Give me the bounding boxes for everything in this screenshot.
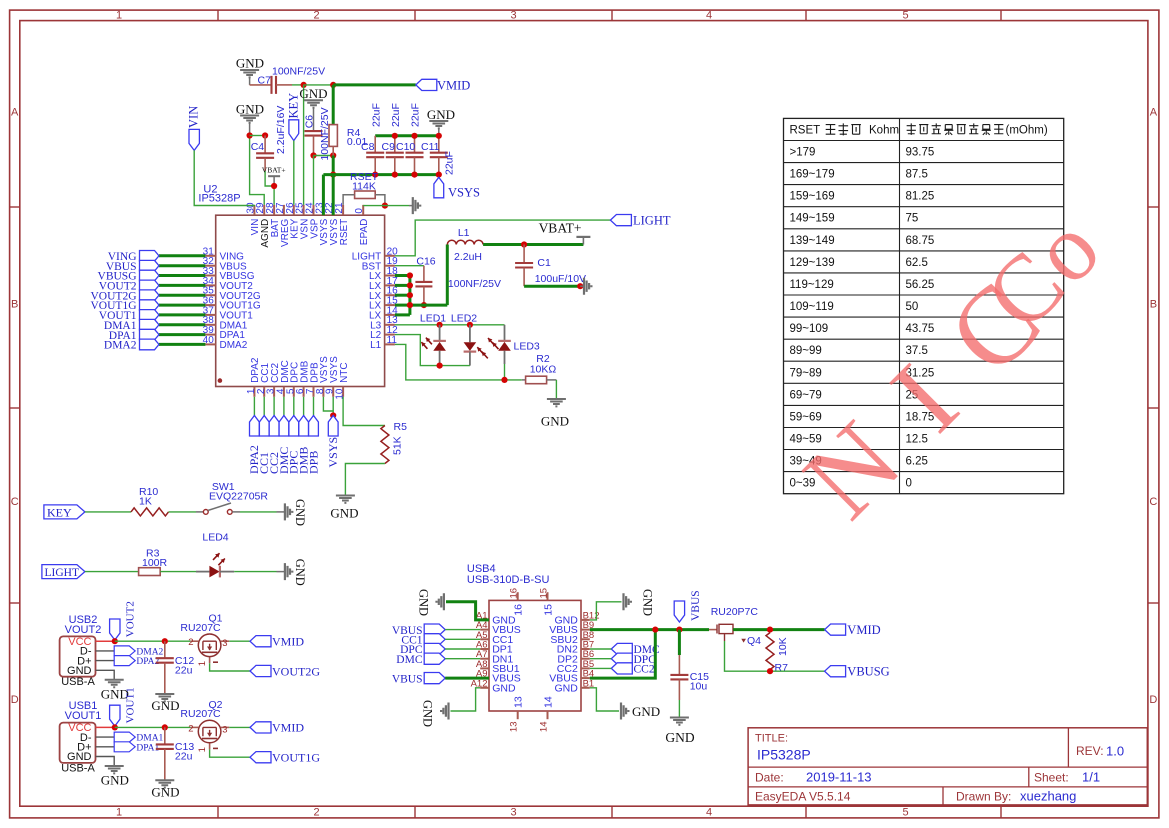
wire VOUT1 to Q2 — [115, 726, 191, 728]
wire Q4 gate to VBUSG — [725, 641, 825, 671]
svg-text:2: 2 — [313, 10, 319, 22]
net flag DPC usb4-right — [611, 653, 656, 666]
wire VCC VOUT2 — [96, 640, 115, 642]
wire B1 to GND — [590, 688, 619, 711]
svg-text:DMA2: DMA2 — [220, 340, 248, 351]
svg-text:C16: C16 — [416, 255, 435, 267]
svg-text:KEY: KEY — [47, 505, 72, 519]
svg-text:Kohm: Kohm — [869, 124, 899, 136]
capacitor C1 — [515, 245, 586, 287]
svg-text:C7: C7 — [258, 75, 272, 87]
junction C1 top — [521, 241, 527, 247]
ground EPAD arrow — [409, 197, 420, 214]
junction A1 — [247, 132, 253, 138]
svg-text:1K: 1K — [139, 496, 152, 508]
ground C12 — [151, 694, 179, 713]
svg-text:2: 2 — [313, 807, 319, 819]
junctions LED top — [437, 322, 474, 328]
wire SW1 to GND — [232, 511, 276, 513]
svg-text:1: 1 — [116, 807, 122, 819]
resistor R7 10K — [766, 633, 789, 674]
wire D- flag — [96, 736, 115, 738]
svg-text:Date:: Date: — [755, 771, 784, 785]
wire VOUT2 to Q1 — [115, 640, 191, 642]
svg-text:89~99: 89~99 — [790, 345, 822, 357]
svg-text:GND: GND — [101, 773, 129, 788]
svg-text:GND: GND — [665, 730, 694, 745]
wire VBUS to C15 — [678, 630, 681, 655]
svg-text:1: 1 — [116, 10, 122, 22]
net flag DPA1 — [114, 742, 159, 754]
svg-text:GND: GND — [299, 86, 327, 101]
wire KEY to pin26 — [293, 141, 295, 205]
svg-text:xuezhang: xuezhang — [1020, 789, 1076, 804]
junction VSYS rail-pin22 — [330, 172, 336, 178]
wire DPC to pin — [445, 648, 480, 650]
net flag LIGHT right — [610, 213, 670, 227]
net flag VSYS top — [434, 177, 480, 199]
wire C6 to R4 bottom — [314, 155, 334, 157]
led LED3 — [488, 325, 540, 364]
svg-text:VOUT1: VOUT1 — [125, 687, 137, 723]
led LED1 — [420, 312, 446, 365]
svg-text:KEY: KEY — [286, 93, 300, 119]
net flag DMA2 — [114, 646, 163, 658]
svg-text:VSYS: VSYS — [326, 437, 340, 468]
wire LIGHT to R3 — [85, 571, 139, 573]
junction VSP-C6 — [310, 152, 316, 158]
svg-text:VMID: VMID — [847, 623, 880, 637]
svg-text:GND: GND — [67, 665, 92, 677]
resistor R2 10K — [522, 353, 557, 384]
wire C7 to VSN node — [292, 84, 304, 86]
junctions LX bus — [407, 272, 413, 308]
svg-text:VIN: VIN — [187, 106, 201, 128]
junction VOUT1 flag — [112, 724, 118, 730]
junction LED3-R2 — [501, 377, 507, 383]
wire R4 to VSYS rail — [332, 156, 335, 175]
svg-text:D: D — [11, 694, 19, 706]
svg-text:C: C — [1149, 496, 1157, 508]
svg-text:10: 10 — [335, 388, 346, 400]
svg-text:159~169: 159~169 — [790, 191, 835, 203]
left net flags VING..DMA2 with wires — [91, 251, 206, 352]
svg-text:22uF: 22uF — [390, 103, 402, 127]
ground LIGHT arrow — [277, 559, 308, 586]
wire VSN sense — [303, 85, 305, 205]
wire DMC right — [590, 648, 612, 650]
svg-text:GND: GND — [293, 499, 307, 526]
net flag KEY left — [44, 505, 85, 519]
ground for AGND — [236, 102, 264, 136]
wire B12 to GND — [590, 602, 622, 620]
ground R2 — [541, 399, 569, 428]
wire B4 VBUS up — [590, 630, 656, 679]
wire Q2 gate to VOUT1G — [210, 749, 250, 757]
svg-text:GND: GND — [417, 589, 431, 616]
table RSET resistance vs battery internal resistance — [784, 118, 1064, 493]
wire C1 to GND — [524, 285, 580, 288]
wire VMID rail thick — [333, 83, 416, 86]
ground USB4 bottom-right — [621, 703, 660, 720]
net flag VBUS top — [674, 590, 702, 622]
svg-text:4: 4 — [706, 10, 712, 22]
svg-text:139~149: 139~149 — [790, 235, 835, 247]
svg-text:114K: 114K — [352, 180, 376, 192]
svg-text:VOUT2: VOUT2 — [65, 624, 102, 636]
svg-text:USB4: USB4 — [467, 563, 496, 575]
svg-text:2: 2 — [188, 723, 193, 734]
capacitor C16 — [415, 255, 501, 305]
svg-text:Q4: Q4 — [747, 635, 761, 647]
junction A2 — [262, 132, 268, 138]
net flag DMC usb4-left — [396, 653, 445, 666]
svg-text:100R: 100R — [142, 557, 168, 569]
net flag VMID right — [825, 623, 881, 637]
net flag VBUSG — [825, 665, 890, 679]
wire pin8 VSYS jog — [323, 397, 333, 411]
junction VBUS-B4 — [652, 627, 658, 633]
usb connector USB1 — [60, 700, 102, 774]
capacitor C7 — [250, 66, 326, 94]
wire VBUS to pin — [445, 629, 480, 631]
wire C4 to BAT — [265, 171, 274, 205]
net flag DPC usb4-left — [400, 643, 445, 656]
net flag VOUT1G — [250, 751, 320, 765]
junction R4 bottom — [330, 152, 336, 158]
wire C15 to GND — [678, 700, 680, 718]
svg-text:VBAT+: VBAT+ — [262, 166, 286, 175]
svg-text:DMA1: DMA1 — [136, 734, 163, 744]
svg-text:VOUT1G: VOUT1G — [272, 751, 320, 765]
junction C1 gnd — [577, 283, 583, 289]
op-amp U2 IP5328P body — [216, 215, 385, 386]
wire B9 VBUS rail — [590, 628, 709, 631]
net flag KEY top — [286, 93, 300, 141]
svg-text:C11: C11 — [421, 141, 440, 153]
wire L1 to VBAT+ — [483, 243, 583, 246]
svg-text:2019-11-13: 2019-11-13 — [806, 770, 872, 785]
transistor Q4 RU20P7C — [709, 606, 761, 647]
svg-text:DMA2: DMA2 — [136, 647, 163, 657]
svg-text:L1: L1 — [370, 340, 382, 351]
svg-text:2: 2 — [188, 637, 193, 648]
ground USB4 top-left — [417, 589, 444, 616]
svg-text:75: 75 — [906, 213, 919, 225]
svg-text:93.75: 93.75 — [906, 147, 935, 159]
wire cap bank top rail — [375, 134, 439, 137]
svg-text:GND: GND — [293, 559, 307, 586]
wire RSET left to pin21 — [343, 195, 355, 205]
junctions VSYS rail — [372, 172, 442, 178]
svg-text:USB-A: USB-A — [61, 762, 95, 774]
junction R7 top — [767, 627, 773, 633]
net flag VOUT2 — [110, 601, 137, 640]
wire DMC to pin — [445, 658, 480, 660]
labels C8..C11 — [361, 103, 455, 175]
svg-text:0: 0 — [354, 208, 365, 214]
junction EPAD — [382, 203, 388, 209]
ground C15 — [665, 718, 694, 746]
ground USB4 bottom-left — [421, 700, 449, 727]
svg-text:LED2: LED2 — [451, 312, 477, 324]
svg-text:GND: GND — [421, 700, 435, 727]
svg-text:R7: R7 — [775, 662, 789, 674]
svg-text:GND: GND — [632, 704, 660, 719]
label U2 refdes — [198, 184, 240, 205]
net flag VIN — [187, 106, 201, 151]
svg-text:GND: GND — [236, 102, 264, 117]
svg-text:16: 16 — [513, 604, 525, 616]
svg-text:1.0: 1.0 — [1106, 744, 1124, 759]
transistor Q1 RU207C — [180, 613, 229, 667]
junction VSYS flag — [330, 412, 336, 418]
svg-text:87.5: 87.5 — [906, 169, 928, 181]
wire VMID mid — [304, 84, 334, 86]
net flag CC1 usb4-left — [401, 634, 445, 647]
wire Q1 to VMID — [229, 640, 250, 642]
wire D+ flag — [96, 746, 115, 748]
wire R10 to SW1 — [169, 511, 204, 513]
svg-text:VOUT1: VOUT1 — [65, 710, 102, 722]
bottom net flags DPA2..DPB — [247, 397, 320, 474]
svg-text:51K: 51K — [392, 436, 404, 455]
svg-text:5: 5 — [902, 10, 908, 22]
wire Q4 to VMID — [733, 628, 825, 631]
net flag VBUS usb4-left — [392, 624, 445, 637]
svg-text:VMID: VMID — [272, 721, 304, 735]
svg-text:1: 1 — [197, 661, 208, 666]
svg-text:USB-A: USB-A — [61, 676, 95, 688]
wire R5 to GND — [345, 464, 385, 496]
junction VOUT2 flag — [112, 638, 118, 644]
wire L2 to LED bottoms — [395, 335, 470, 366]
junction LED1 bottom — [437, 363, 443, 369]
wire D+ flag — [96, 660, 115, 662]
svg-text:C6: C6 — [304, 115, 316, 129]
net flag DMA1 — [114, 732, 163, 744]
led LED4 — [202, 531, 234, 577]
svg-text:REV:: REV: — [1076, 744, 1104, 758]
svg-text:C1: C1 — [537, 257, 551, 269]
svg-text:(mOhm): (mOhm) — [1006, 124, 1048, 136]
svg-text:62.5: 62.5 — [906, 257, 928, 269]
svg-text:22uF: 22uF — [410, 103, 422, 127]
svg-text:B: B — [1150, 299, 1157, 311]
svg-text:GND: GND — [541, 413, 569, 428]
svg-text:3: 3 — [222, 638, 227, 649]
svg-text:Drawn By:: Drawn By: — [956, 790, 1011, 804]
resistor R3 100R — [139, 547, 168, 575]
svg-text:TITLE:: TITLE: — [755, 733, 788, 745]
svg-text:100NF/25V: 100NF/25V — [272, 66, 325, 78]
wire NTC to R5 — [343, 397, 385, 426]
svg-text:LED3: LED3 — [514, 341, 540, 353]
ground USB2 — [101, 680, 129, 702]
svg-text:C10: C10 — [396, 141, 415, 153]
wire R2 to GND — [555, 380, 557, 399]
switch SW1 EVQ22705R — [203, 481, 268, 514]
svg-text:RU20P7C: RU20P7C — [711, 606, 759, 618]
wire pin9 VSYS — [332, 397, 334, 416]
net flag VSYS bottom — [326, 416, 340, 468]
wire BST to C16 — [395, 265, 424, 267]
svg-text:14: 14 — [539, 722, 550, 733]
junction C12 top — [162, 638, 168, 644]
resistor R4 — [329, 125, 367, 156]
ground C1 arrow — [580, 278, 591, 295]
svg-text:C8: C8 — [361, 141, 375, 153]
svg-text:L1: L1 — [458, 227, 470, 239]
svg-text:IP5328P: IP5328P — [757, 747, 811, 763]
watermark — [781, 194, 1121, 541]
wire D- flag — [96, 650, 115, 652]
svg-text:10K: 10K — [777, 637, 789, 656]
svg-text:A: A — [1150, 107, 1158, 119]
wire CC1 to pin — [445, 638, 480, 640]
svg-text:22uF: 22uF — [443, 151, 455, 175]
svg-text:DPB: DPB — [306, 451, 320, 474]
svg-text:15: 15 — [539, 588, 550, 599]
wire R3 to LED4 — [160, 571, 209, 573]
ground for C6 — [299, 86, 327, 131]
svg-text:68.75: 68.75 — [906, 235, 935, 247]
wire Q1 gate to VOUT2G — [210, 663, 250, 671]
wire EPAD to GND — [363, 205, 409, 207]
wire A1 to GND — [446, 602, 489, 620]
svg-text:VSYS: VSYS — [448, 186, 480, 200]
ground for C7 — [236, 56, 264, 85]
net flag VOUT1 — [110, 687, 137, 726]
wire KEY to R10 — [85, 511, 131, 513]
svg-text:VOUT2G: VOUT2G — [272, 664, 320, 678]
svg-text:RSET: RSET — [790, 124, 821, 136]
capacitor C11 — [430, 136, 448, 175]
junction A3 — [271, 183, 277, 189]
net flag VMID top — [416, 78, 471, 92]
svg-text:LED1: LED1 — [420, 312, 446, 324]
junction VBUS flag — [676, 627, 682, 633]
wire USB2 GND — [96, 670, 115, 680]
svg-text:A: A — [11, 107, 19, 119]
junction VMID-VSN — [301, 82, 307, 88]
wire USB1 GND — [96, 757, 115, 767]
wire Q2 to VMID — [229, 726, 250, 728]
svg-text:C9: C9 — [382, 141, 396, 153]
wire LX bus — [395, 245, 447, 315]
svg-text:22u: 22u — [175, 751, 193, 763]
capacitor C10 — [406, 136, 424, 175]
ground C13 — [151, 780, 179, 799]
svg-text:B: B — [11, 299, 18, 311]
wire LED top rail — [395, 324, 505, 326]
wire AGND — [250, 136, 265, 205]
transistor Q2 RU207C — [180, 699, 229, 753]
svg-text:3: 3 — [510, 807, 516, 819]
usb connector USB4 USB-310D-B-SU — [467, 563, 600, 732]
svg-text:GND: GND — [151, 784, 179, 799]
svg-text:RU207C: RU207C — [180, 708, 221, 720]
svg-text:129~139: 129~139 — [790, 257, 835, 269]
svg-text:3: 3 — [510, 10, 516, 22]
svg-text:LIGHT: LIGHT — [45, 567, 80, 579]
svg-text:VBUSG: VBUSG — [847, 665, 889, 679]
svg-text:16: 16 — [509, 588, 520, 599]
svg-text:VBUS: VBUS — [392, 673, 423, 685]
svg-text:22u: 22u — [175, 665, 193, 677]
wire VBUS A9 thick — [445, 677, 489, 680]
svg-text:GND: GND — [236, 56, 264, 71]
wire GND to C4 — [250, 135, 266, 137]
wire VCC VOUT1 — [96, 726, 115, 728]
junction C13 top — [162, 724, 168, 730]
wire A12 to GND — [451, 688, 481, 711]
svg-text:IP5328P: IP5328P — [198, 193, 240, 205]
capacitor C12 — [156, 641, 195, 694]
resistor RSET 114K — [350, 171, 379, 198]
svg-text:Sheet:: Sheet: — [1034, 771, 1069, 785]
svg-text:GND: GND — [641, 589, 655, 616]
svg-text:RSET: RSET — [339, 219, 350, 246]
svg-text:DMC: DMC — [396, 654, 423, 666]
svg-text:EPAD: EPAD — [359, 219, 370, 246]
svg-text:99~109: 99~109 — [790, 323, 829, 335]
resistor R10 1K — [131, 486, 168, 516]
capacitor C9 — [386, 136, 404, 175]
wire VSYS bottom rail — [323, 173, 438, 176]
wire LIGHT — [395, 220, 611, 256]
svg-text:C: C — [11, 496, 19, 508]
svg-text:RU207C: RU207C — [180, 622, 221, 634]
svg-text:79~89: 79~89 — [790, 367, 822, 379]
svg-text:3: 3 — [222, 724, 227, 735]
power symbol VBAT+ small — [262, 166, 286, 186]
net flag CC2 usb4-right — [611, 663, 655, 676]
svg-text:CC2: CC2 — [634, 664, 655, 676]
svg-text:13: 13 — [513, 696, 525, 708]
svg-text:2.2uH: 2.2uH — [454, 251, 482, 263]
wire LED3 down — [504, 364, 506, 380]
wire L1pin to R2 rail — [395, 344, 522, 380]
svg-text:GND: GND — [151, 698, 179, 713]
svg-text:LIGHT: LIGHT — [633, 213, 671, 227]
ground for cap bank — [427, 107, 455, 136]
capacitor C6 — [304, 107, 331, 160]
svg-text:VOUT2: VOUT2 — [125, 601, 137, 637]
svg-text:GND: GND — [427, 107, 455, 122]
svg-text:EVQ22705R: EVQ22705R — [209, 491, 268, 503]
wire DPC right — [590, 658, 612, 660]
usb connector USB2 — [60, 614, 102, 688]
title block — [748, 728, 1147, 805]
svg-text:10KΩ: 10KΩ — [530, 363, 557, 375]
svg-text:14: 14 — [542, 696, 554, 708]
junction VMID-R4 — [330, 82, 336, 88]
svg-text:81.25: 81.25 — [906, 191, 935, 203]
junction C16 bottom — [421, 302, 427, 308]
junction R7 bottom — [767, 668, 773, 674]
svg-text:GND: GND — [67, 751, 92, 763]
svg-text:69~79: 69~79 — [790, 389, 822, 401]
wire VSP sense — [313, 156, 315, 205]
svg-text:VBAT+: VBAT+ — [539, 221, 582, 236]
svg-text:50: 50 — [906, 301, 919, 313]
svg-text:109~119: 109~119 — [790, 301, 834, 313]
svg-text:LED4: LED4 — [202, 531, 228, 543]
svg-text:EasyEDA V5.5.14: EasyEDA V5.5.14 — [755, 790, 851, 804]
svg-text:4: 4 — [706, 807, 712, 819]
net flag VMID USB2 — [250, 635, 304, 649]
